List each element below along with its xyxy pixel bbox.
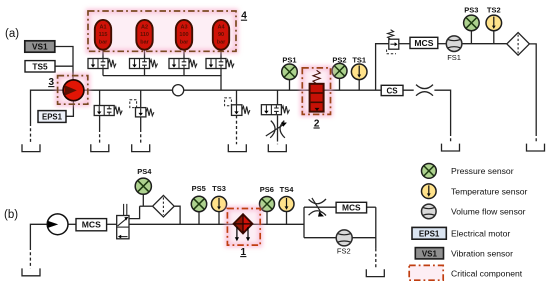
valve V7 with pilot bbox=[225, 98, 250, 116]
svg-text:(a): (a) bbox=[5, 28, 19, 40]
svg-text:VS1: VS1 bbox=[422, 249, 438, 258]
wire TS4 stem bbox=[286, 212, 288, 225]
svg-text:bar: bar bbox=[99, 40, 108, 46]
svg-text:Vibration sensor: Vibration sensor bbox=[451, 249, 513, 259]
vibration sensor VS1 bbox=[25, 41, 55, 52]
tank T2 bbox=[91, 144, 109, 151]
wire V5 to tank T2 bbox=[99, 116, 101, 129]
wire pump to EPS1 bbox=[66, 101, 73, 117]
tank T6 bbox=[442, 144, 460, 151]
wire filter F2 to main line bbox=[175, 206, 181, 224]
legend pressure sensor symbol bbox=[422, 164, 437, 179]
legend temperature sensor symbol bbox=[422, 184, 437, 199]
svg-text:bar: bar bbox=[140, 40, 149, 46]
relief valve V5 bbox=[94, 106, 122, 116]
valve VB1 (shut-off) bbox=[117, 204, 129, 239]
pump P1 (component 3) bbox=[63, 80, 84, 101]
svg-text:A1: A1 bbox=[99, 25, 106, 31]
pressure sensor PS5 bbox=[191, 196, 206, 211]
check valve CV1 bbox=[173, 85, 184, 96]
wire PS2 stem bbox=[339, 78, 341, 90]
wire TS3 stem bbox=[218, 212, 220, 225]
pump P2 bbox=[47, 214, 68, 235]
wire accumulator valve AV3 drop bbox=[183, 69, 185, 76]
accumulator isolation valve AV1 bbox=[88, 59, 116, 69]
svg-text:bar: bar bbox=[180, 40, 189, 46]
svg-text:90: 90 bbox=[218, 32, 224, 38]
svg-text:TS1: TS1 bbox=[352, 56, 366, 65]
svg-text:TS3: TS3 bbox=[212, 184, 226, 193]
wire V5 drain dashed bbox=[99, 129, 101, 144]
proportional valve body (component 2) bbox=[310, 84, 324, 112]
wire drop to valve V7 bbox=[236, 90, 238, 105]
wire PS4 stem bbox=[142, 194, 144, 206]
valve V8 bbox=[261, 105, 289, 115]
control system CS bbox=[381, 85, 403, 95]
wire loop bottom branch right bbox=[352, 237, 376, 239]
wire main pressure line (a) left segment + drop to tank T1 bbox=[31, 90, 64, 123]
svg-text:PS5: PS5 bbox=[192, 184, 206, 193]
tank T8 bbox=[22, 268, 40, 275]
venturi / orifice O1 bbox=[416, 85, 433, 96]
wire right drop dashed to tank T7 bbox=[535, 133, 537, 144]
accumulator A1 115 bar bbox=[95, 20, 111, 50]
svg-text:PS3: PS3 bbox=[464, 5, 478, 14]
filter F2 bbox=[153, 195, 175, 217]
wire throttle drain dashed bbox=[277, 139, 279, 145]
svg-text:CS: CS bbox=[387, 86, 399, 95]
wire accumulator A1 stem bbox=[102, 50, 104, 59]
accumulator isolation valve AV2 bbox=[130, 59, 158, 69]
wire branch to reducing valve bbox=[376, 44, 389, 90]
wire accumulator valve AV4 drop bbox=[220, 69, 222, 76]
svg-text:TS5: TS5 bbox=[32, 61, 48, 71]
spring of valve 2 bbox=[313, 70, 320, 84]
critical component box 2 bbox=[302, 68, 330, 115]
temperature sensor TS2 bbox=[486, 15, 502, 31]
svg-text:A3: A3 bbox=[180, 25, 187, 31]
temperature sensor TS1 bbox=[351, 64, 367, 80]
svg-text:Pressure sensor: Pressure sensor bbox=[451, 166, 514, 176]
tank T4 bbox=[228, 144, 246, 151]
tank T7 bbox=[527, 144, 545, 151]
wire main pressure line (a) pump to check valve bbox=[84, 89, 173, 91]
wire FS1 to filter F1 bbox=[462, 43, 507, 45]
wire MCS to valve VB1 bbox=[107, 223, 117, 225]
tank T5 bbox=[268, 144, 286, 151]
temperature sensor TS3 bbox=[211, 196, 226, 211]
wire valve VB1 upper port to filter branch bbox=[129, 206, 140, 218]
red valve (component 1) bbox=[234, 214, 253, 241]
filter F1 bbox=[507, 33, 530, 56]
svg-text:TS2: TS2 bbox=[487, 5, 501, 14]
wire accumulator A4 stem bbox=[220, 50, 222, 59]
svg-text:EPS1: EPS1 bbox=[42, 113, 63, 122]
svg-text:EPS1: EPS1 bbox=[419, 229, 440, 238]
svg-text:PS1: PS1 bbox=[282, 56, 296, 65]
wire TS2 stem bbox=[493, 31, 495, 44]
wire main line (b) bbox=[129, 223, 304, 225]
variable throttle TH2 bbox=[309, 198, 326, 217]
wire TS1 stem bbox=[358, 80, 360, 91]
wire drop to valve V6 bbox=[140, 90, 142, 107]
variable throttle TH1 bbox=[266, 121, 287, 138]
volume flow sensor FS1 bbox=[446, 36, 462, 52]
wire V6 drain dashed bbox=[140, 129, 142, 144]
svg-text:FS2: FS2 bbox=[337, 247, 351, 256]
svg-text:Electrical motor: Electrical motor bbox=[451, 229, 510, 239]
wire accumulator valve AV1 drop bbox=[102, 69, 104, 76]
wire loop left vertical bbox=[303, 207, 305, 238]
monitoring system MCS (a) bbox=[410, 37, 438, 48]
wire V6 to tank T3 bbox=[140, 117, 142, 129]
svg-text:VS1: VS1 bbox=[32, 42, 48, 52]
temperature sensor TS5 bbox=[25, 61, 55, 72]
legend volume flow sensor symbol bbox=[422, 204, 437, 219]
wire tank T8 suction dashed bbox=[29, 247, 31, 268]
svg-text:TS4: TS4 bbox=[280, 185, 295, 194]
accumulator isolation valve AV4 bbox=[206, 59, 234, 69]
critical component box 3 bbox=[58, 76, 88, 105]
wire PS3 stem bbox=[470, 31, 472, 44]
wire drain to tank T9 dashed bbox=[375, 248, 377, 269]
wire drain to tank T1 dashed bbox=[30, 123, 32, 144]
svg-text:A4: A4 bbox=[217, 25, 225, 31]
wire V7 drain dashed bbox=[236, 115, 238, 144]
wire drop to relief valve V5 bbox=[99, 90, 101, 105]
wire tank T8 to pump P2 bbox=[30, 224, 47, 247]
wire PS5 stem bbox=[198, 212, 200, 225]
wire filter branch to filter F2 bbox=[140, 205, 153, 207]
electrical motor EPS1 bbox=[38, 111, 66, 123]
critical component box 1 bbox=[227, 209, 260, 246]
wire TS5 to pump bbox=[55, 65, 73, 67]
svg-text:MCS: MCS bbox=[82, 220, 101, 230]
accumulator A3 100 bar bbox=[176, 20, 192, 50]
temperature sensor TS4 bbox=[279, 197, 294, 212]
wire accumulator collector line bbox=[103, 76, 221, 91]
pressure reducing valve PRV1 bbox=[387, 30, 399, 54]
wire loop top branch bbox=[304, 206, 336, 208]
monitoring system MCS (b) bbox=[76, 219, 107, 231]
svg-text:110: 110 bbox=[140, 32, 149, 38]
wire main pressure line (a) venturi to right drop bbox=[434, 90, 450, 133]
monitoring system MCS (loop) bbox=[336, 202, 367, 213]
wire loop MCS to right vertical bbox=[367, 206, 376, 208]
svg-text:Critical component: Critical component bbox=[451, 268, 523, 278]
wire VS1 to pump bbox=[55, 47, 73, 80]
volume flow sensor FS2 bbox=[336, 230, 352, 246]
wire V8 to throttle and tank T5 bbox=[277, 115, 279, 138]
wire loop right vertical and drain bbox=[375, 207, 377, 248]
pressure sensor PS2 bbox=[332, 63, 347, 78]
pressure sensor PS1 bbox=[282, 64, 298, 80]
wire PS6 stem bbox=[266, 212, 268, 225]
wire drop to valve V8 bbox=[277, 90, 279, 105]
svg-text:FS1: FS1 bbox=[447, 53, 461, 62]
svg-text:MCS: MCS bbox=[414, 38, 433, 48]
accumulator A2 110 bar bbox=[136, 20, 152, 50]
wire reducing valve to MCS bbox=[399, 43, 410, 45]
svg-text:PS6: PS6 bbox=[260, 185, 274, 194]
wire filter F1 to right drop bbox=[529, 44, 536, 133]
accumulator A4 90 bar bbox=[213, 20, 229, 50]
legend critical component symbol bbox=[409, 265, 443, 280]
wire main pressure line (a) valve 2 to venturi bbox=[324, 89, 414, 91]
wire accumulator A2 stem bbox=[144, 50, 146, 59]
svg-text:115: 115 bbox=[99, 32, 108, 38]
wire PS1 stem bbox=[289, 80, 291, 90]
svg-text:Temperature sensor: Temperature sensor bbox=[451, 187, 528, 197]
wire right drop dashed to tank T6 bbox=[450, 133, 452, 144]
pressure sensor PS3 bbox=[464, 15, 480, 31]
valve V6 with pilot bbox=[130, 100, 154, 117]
wire accumulator valve AV2 drop bbox=[144, 69, 146, 76]
wire pump P2 to MCS bbox=[68, 223, 76, 225]
svg-text:bar: bar bbox=[217, 40, 226, 46]
legend electrical motor EPS1 bbox=[412, 227, 446, 239]
svg-text:100: 100 bbox=[179, 32, 188, 38]
svg-text:(b): (b) bbox=[4, 209, 18, 221]
accumulator isolation valve AV3 bbox=[169, 59, 197, 69]
tank T1 bbox=[22, 144, 40, 151]
wire main pressure line (a) check valve to valve 2 bbox=[184, 89, 310, 91]
critical component box 4 bbox=[88, 11, 236, 51]
tank T3 bbox=[132, 144, 150, 151]
wire loop bottom branch left bbox=[304, 237, 336, 239]
pressure sensor PS4 bbox=[135, 178, 151, 194]
wire accumulator A3 stem bbox=[183, 50, 185, 59]
wire MCS to FS1 bbox=[438, 43, 447, 45]
svg-text:A2: A2 bbox=[141, 25, 148, 31]
pressure sensor PS6 bbox=[260, 197, 275, 212]
legend vibration sensor VS1 bbox=[415, 248, 443, 259]
svg-text:MCS: MCS bbox=[342, 203, 361, 213]
svg-text:Volume flow sensor: Volume flow sensor bbox=[451, 207, 526, 217]
svg-text:PS4: PS4 bbox=[137, 167, 152, 176]
tank T9 bbox=[366, 269, 384, 276]
